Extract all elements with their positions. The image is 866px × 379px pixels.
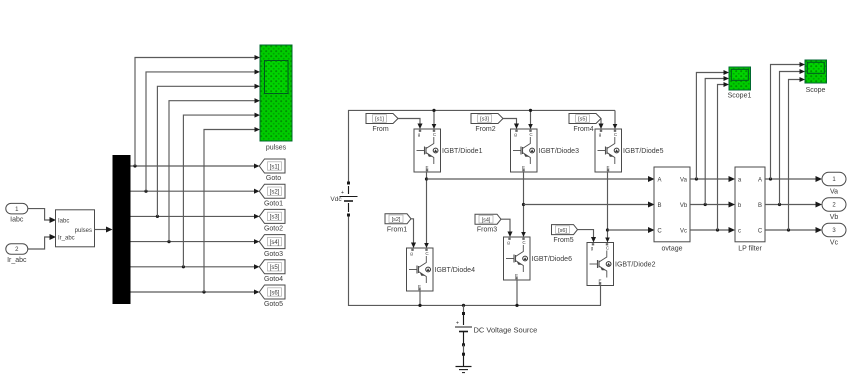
svg-text:[s5]: [s5] (270, 265, 280, 271)
svg-text:IGBT/Diode2: IGBT/Diode2 (615, 262, 656, 269)
svg-text:[s6]: [s6] (558, 228, 567, 234)
svg-text:Goto1: Goto1 (264, 200, 283, 207)
svg-text:Vdc: Vdc (330, 196, 342, 203)
svg-text:C: C (758, 228, 763, 234)
svg-text:[s6]: [s6] (270, 290, 280, 296)
svg-text:[s3]: [s3] (270, 215, 280, 221)
svg-text:[s2]: [s2] (392, 217, 401, 223)
svg-text:Vc: Vc (680, 228, 687, 234)
svg-text:From: From (372, 126, 389, 133)
svg-text:[s3]: [s3] (480, 117, 489, 123)
svg-text:Scope1: Scope1 (728, 93, 752, 100)
svg-text:Vb: Vb (830, 214, 839, 221)
svg-text:From4: From4 (573, 126, 593, 133)
svg-text:Ir_abc: Ir_abc (58, 235, 75, 241)
svg-text:From2: From2 (475, 126, 495, 133)
svg-text:Goto4: Goto4 (264, 276, 283, 283)
svg-text:Goto2: Goto2 (264, 226, 283, 233)
svg-text:c: c (738, 228, 741, 234)
svg-text:B: B (657, 203, 661, 209)
svg-text:Vc: Vc (830, 239, 839, 246)
svg-text:Va: Va (830, 188, 838, 195)
svg-text:pulses: pulses (75, 228, 92, 234)
svg-text:[s1]: [s1] (270, 164, 280, 170)
svg-text:Goto5: Goto5 (264, 301, 283, 308)
svg-text:From1: From1 (387, 226, 407, 233)
svg-text:C: C (657, 228, 662, 234)
svg-text:Goto3: Goto3 (264, 251, 283, 258)
svg-text:Iabc: Iabc (10, 216, 24, 223)
svg-text:Iabc: Iabc (58, 218, 69, 224)
svg-text:[s1]: [s1] (375, 117, 384, 123)
svg-text:B: B (758, 203, 762, 209)
svg-text:[s2]: [s2] (270, 190, 280, 196)
svg-text:[s4]: [s4] (482, 217, 491, 223)
svg-text:IGBT/Diode1: IGBT/Diode1 (442, 148, 483, 155)
svg-text:Scope: Scope (806, 87, 826, 94)
svg-text:[s5]: [s5] (578, 117, 587, 123)
svg-text:A: A (758, 177, 762, 183)
svg-text:Vb: Vb (680, 203, 688, 209)
svg-text:Ir_abc: Ir_abc (7, 257, 27, 264)
svg-text:pulses: pulses (266, 145, 287, 152)
svg-text:LP filter: LP filter (738, 246, 762, 253)
svg-text:IGBT/Diode3: IGBT/Diode3 (539, 148, 580, 155)
svg-text:A: A (657, 177, 661, 183)
svg-text:Va: Va (680, 177, 688, 183)
svg-text:+: + (456, 321, 459, 327)
svg-text:[s4]: [s4] (270, 240, 280, 246)
svg-text:IGBT/Diode5: IGBT/Diode5 (623, 148, 664, 155)
svg-text:ovtage: ovtage (661, 246, 682, 253)
svg-text:DC Voltage Source: DC Voltage Source (474, 326, 538, 335)
svg-text:From3: From3 (477, 227, 497, 234)
svg-text:Goto: Goto (266, 175, 281, 182)
svg-text:IGBT/Diode4: IGBT/Diode4 (435, 267, 476, 274)
svg-text:From5: From5 (553, 237, 573, 244)
svg-text:IGBT/Diode6: IGBT/Diode6 (532, 256, 573, 263)
